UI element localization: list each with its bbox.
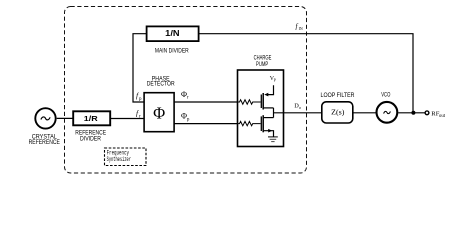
phase detector U1 (144, 93, 174, 132)
label CRYSTAL REFERENCE (29, 134, 60, 146)
label phi_r (181, 90, 189, 101)
transistor Q2 NMOS (261, 115, 273, 132)
svg-text:REFERENCE: REFERENCE (29, 140, 60, 146)
label f_IN (296, 22, 303, 31)
resistor R1 (PMOS gate) (238, 100, 261, 104)
svg-text:Z(s): Z(s) (331, 107, 345, 116)
svg-text:o: o (299, 105, 301, 110)
label V_P supply (270, 76, 277, 83)
wire NMOS source to ground (arrow out of transistor) (264, 129, 274, 137)
label D_o (294, 103, 301, 111)
svg-text:1/R: 1/R (84, 114, 98, 123)
wire 1/N to phase detector (f_p) (133, 34, 147, 102)
frequency synthesizer label box (dashed) (105, 148, 147, 166)
wire crystal to 1/R (57, 117, 73, 119)
resistor R2 (NMOS gate) (238, 121, 261, 125)
wire V_P to PMOS source (with arrow into transistor) (264, 85, 273, 96)
wire charge pump output D_o to loop filter (274, 112, 323, 114)
label f_p (136, 91, 142, 102)
label RF_out (431, 110, 445, 119)
svg-text:VCO: VCO (381, 92, 390, 98)
svg-text:out: out (439, 114, 446, 119)
wire phase detector output phi_r to charge pump (174, 101, 238, 103)
main divider 1/N (147, 26, 199, 41)
svg-text:1/N: 1/N (165, 29, 180, 38)
svg-text:PUMP: PUMP (256, 62, 268, 68)
ground (268, 137, 278, 142)
reference divider 1/R (73, 111, 110, 125)
frequency synthesizer boundary (dashed box) (65, 7, 307, 174)
svg-text:MAIN DIVIDER: MAIN DIVIDER (155, 49, 189, 55)
loop filter Z(s) (322, 102, 353, 123)
label Frequency Synthesizer (107, 150, 131, 163)
svg-text:CHARGE: CHARGE (254, 56, 272, 62)
label phi_p (181, 112, 190, 123)
feedback wire f_IN from RF junction to 1/N (199, 34, 413, 113)
svg-text:DETECTOR: DETECTOR (147, 82, 175, 88)
label PHASE DETECTOR (147, 76, 175, 87)
svg-text:IN: IN (299, 27, 303, 31)
RF out terminal (425, 111, 429, 115)
label f_r (136, 109, 141, 120)
svg-text:DS008631-13: DS008631-13 (404, 179, 447, 181)
svg-text:Synthesizer: Synthesizer (107, 156, 131, 163)
wire phase detector output phi_p to charge pump (174, 123, 238, 125)
wire loop filter to VCO (353, 112, 376, 114)
label REFERENCE DIVIDER (75, 131, 106, 143)
wire VCO to RF out (398, 112, 425, 114)
transistor Q1 PMOS (261, 93, 273, 110)
svg-text:LOOP FILTER: LOOP FILTER (321, 93, 356, 99)
label CHARGE PUMP (254, 56, 272, 68)
charge pump box (238, 70, 284, 147)
wire 1/R to phase detector (f_r) (110, 118, 144, 120)
svg-text:DIVIDER: DIVIDER (80, 136, 101, 142)
node: junction dot (411, 111, 415, 115)
crystal reference oscillator X1 (35, 108, 55, 128)
node: drain junction bar (273, 108, 275, 118)
svg-text:Φ: Φ (153, 103, 165, 122)
VCO oscillator (377, 102, 398, 123)
